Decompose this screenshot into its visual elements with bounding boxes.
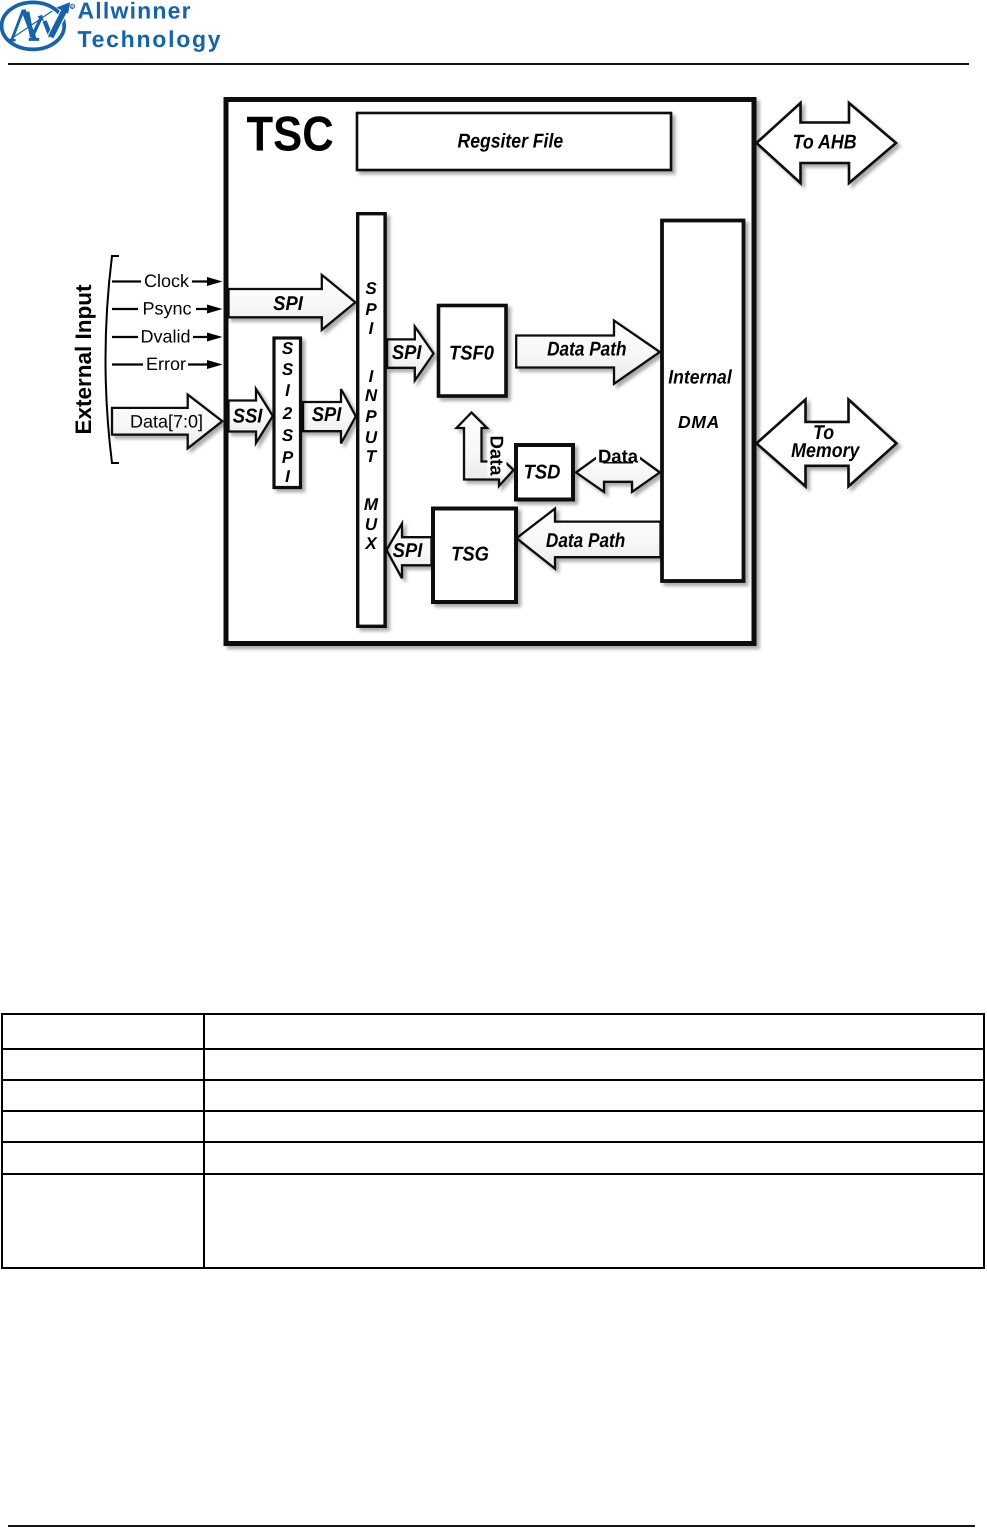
data path arrow (DMA to TSG) — [517, 509, 661, 569]
logo big arrowhead — [56, 2, 70, 14]
logo W mid arrowhead — [37, 15, 44, 22]
svg-text:T: T — [366, 447, 378, 466]
TSF0 box — [439, 306, 507, 397]
svg-text:Psync: Psync — [142, 299, 191, 319]
svg-text:SSI: SSI — [233, 405, 263, 427]
svg-text:Data[7:0]: Data[7:0] — [130, 412, 203, 432]
register file box — [357, 113, 671, 170]
svg-text:Regsiter File: Regsiter File — [457, 131, 563, 153]
footer rule — [8, 1525, 975, 1527]
svg-text:S: S — [365, 279, 377, 298]
Allwinner logo — [0, 0, 250, 62]
error line — [112, 354, 223, 374]
svg-text:Data: Data — [487, 435, 508, 476]
elbow data label — [487, 435, 508, 477]
svg-text:N: N — [365, 386, 378, 405]
svg-text:2: 2 — [282, 404, 293, 423]
svg-text:SPI: SPI — [392, 342, 422, 364]
svg-text:TSC: TSC — [247, 108, 334, 162]
svg-text:U: U — [365, 515, 378, 534]
data double arrow (TSD and DMA) — [576, 452, 660, 492]
svg-text:Memory: Memory — [791, 440, 860, 462]
elbow data arrow (TSD to TSF0) — [457, 413, 514, 487]
svg-text:P: P — [365, 300, 377, 319]
logo ellipse — [2, 2, 65, 49]
SPI arrow (SSI2SPI to mux) — [303, 389, 356, 444]
svg-text:Data Path: Data Path — [546, 530, 625, 552]
svg-text:SPI: SPI — [393, 540, 423, 562]
SPI arrow (TSG leftward into mux) — [387, 524, 432, 579]
svg-text:P: P — [282, 448, 294, 467]
SSI2SPI box — [274, 338, 301, 488]
svg-text:S: S — [282, 339, 294, 358]
header rule — [8, 63, 969, 65]
clock line — [112, 271, 223, 291]
internal DMA box — [662, 221, 744, 582]
svg-text:Error: Error — [146, 354, 186, 374]
logo swoosh thin line — [9, 11, 52, 40]
external input label — [71, 284, 96, 435]
svg-text:Clock: Clock — [144, 271, 190, 291]
table row line 5 — [3, 1173, 983, 1175]
external input bracket — [106, 256, 120, 463]
svg-text:Data Path: Data Path — [547, 339, 626, 361]
svg-text:TSF0: TSF0 — [449, 343, 494, 365]
table row line 3 — [3, 1110, 983, 1112]
table row line 2 — [3, 1079, 983, 1081]
TSG box — [433, 509, 516, 603]
svg-text:M: M — [364, 495, 379, 514]
table — [1, 1013, 985, 1269]
svg-text:Dvalid: Dvalid — [140, 327, 190, 347]
svg-text:S: S — [282, 426, 294, 445]
TSC outer box — [226, 100, 754, 644]
svg-text:To AHB: To AHB — [793, 131, 857, 153]
SSI arrow (data input to SSI2SPI) — [229, 389, 273, 443]
svg-text:Data: Data — [598, 446, 639, 467]
svg-text:U: U — [365, 428, 378, 447]
SPI input mux box — [358, 214, 385, 627]
svg-text:TSD: TSD — [524, 462, 561, 484]
svg-text:Internal: Internal — [668, 366, 732, 388]
logo letter W — [27, 8, 66, 37]
big SPI arrow (external into mux) — [229, 275, 356, 330]
svg-text:DMA: DMA — [678, 412, 720, 432]
table row line 1 — [3, 1048, 983, 1050]
TSD box — [516, 445, 573, 500]
svg-text:External Input: External Input — [71, 284, 96, 435]
svg-text:SPI: SPI — [273, 293, 303, 315]
data[7:0] big arrow — [112, 395, 222, 449]
to AHB double arrow — [757, 103, 897, 183]
psync line — [112, 299, 223, 319]
svg-text:X: X — [364, 534, 378, 553]
svg-text:P: P — [365, 407, 377, 426]
svg-text:TSG: TSG — [451, 544, 489, 566]
dvalid line — [112, 327, 223, 347]
logo registered mark — [70, 4, 74, 8]
logo letter A — [8, 10, 39, 41]
data path arrow (TSF0 to DMA) — [516, 321, 660, 384]
svg-text:S: S — [282, 360, 294, 379]
svg-text:SPI: SPI — [312, 404, 342, 426]
SPI arrow (mux to TSF0) — [387, 327, 434, 381]
table row line 4 — [3, 1141, 983, 1143]
to memory double arrow — [757, 400, 897, 487]
table column line — [203, 1015, 205, 1267]
